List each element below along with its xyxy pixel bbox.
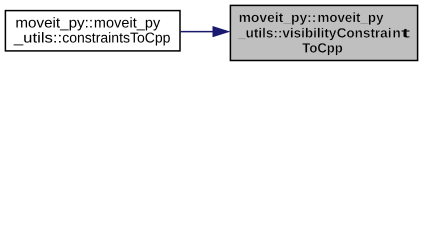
svg-text:moveit_py::: moveit_py::	[239, 10, 317, 25]
svg-text:Constrai: Constrai	[337, 25, 392, 40]
svg-text:_utils::visibility: _utils::visibility	[237, 25, 337, 40]
svg-text:constraintsToCpp: constraintsToCpp	[62, 31, 170, 47]
svg-text:t: t	[401, 25, 411, 40]
node box: visibilityConstraintToCpp (current, grey)	[230, 5, 417, 60]
svg-text:moveit_py: moveit_py	[94, 16, 161, 32]
edge arrowhead	[213, 26, 230, 36]
node label: constraintsToCpp text	[13, 16, 171, 47]
svg-text:ToCpp: ToCpp	[302, 41, 343, 56]
svg-text:n: n	[393, 25, 401, 40]
svg-text:moveit_py: moveit_py	[318, 10, 384, 25]
node box: constraintsToCpp (caller)	[5, 11, 180, 51]
node label: visibilityConstraintToCpp text	[237, 10, 411, 56]
svg-text:_utils::: _utils::	[13, 31, 62, 47]
edge shaft	[181, 31, 215, 33]
svg-text:moveit_py::: moveit_py::	[15, 16, 93, 32]
